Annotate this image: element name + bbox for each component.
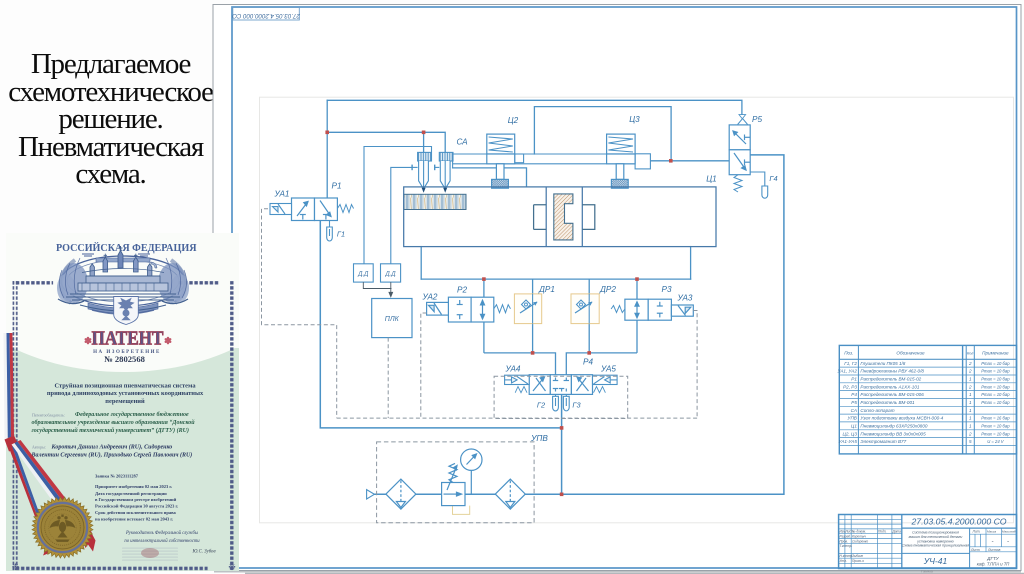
svg-text:1: 1 — [969, 408, 972, 413]
svg-text:Разраб.: Разраб. — [840, 535, 852, 539]
svg-text:❉: ❉ — [12, 562, 20, 572]
svg-text:Р5: Р5 — [851, 400, 857, 405]
svg-text:№ докум.: № докум. — [852, 530, 866, 534]
svg-text:Валентин Сергеевич (RU), Прихо: Валентин Сергеевич (RU), Приходько Серге… — [31, 452, 193, 459]
svg-text:Р2: Р2 — [457, 286, 467, 295]
wire rail to P5 port — [650, 160, 729, 162]
svg-text:Зыбкин: Зыбкин — [852, 554, 863, 558]
svg-text:Поз.: Поз. — [844, 351, 853, 356]
shield with double eagle — [114, 297, 139, 325]
cylinder rail guideway — [453, 154, 651, 169]
svg-text:государственный технический ун: государственный технический университет”… — [32, 427, 190, 434]
svg-text:Распределитель ВМ-015-006: Распределитель ВМ-015-006 — [860, 392, 924, 397]
brake cylinder Ц3 — [607, 134, 636, 188]
svg-text:Примечание: Примечание — [982, 351, 1009, 356]
svg-text:Гамма: Гамма — [921, 569, 934, 574]
wire P3 branch — [636, 279, 638, 299]
filter separator — [386, 479, 416, 509]
svg-text:2: 2 — [968, 431, 972, 436]
svg-text:образовательное учреждение выс: образовательное учреждение высшего образ… — [32, 419, 196, 426]
svg-text:машин для технической детали: машин для технической детали — [909, 535, 963, 539]
svg-text:Р5: Р5 — [752, 115, 762, 124]
svg-text:Pmax = 10 бар: Pmax = 10 бар — [981, 369, 1010, 374]
node J1 supply/CA branch — [325, 131, 329, 135]
svg-text:Ц3: Ц3 — [629, 115, 640, 124]
pressure gauge — [461, 449, 482, 494]
svg-text:U = 24 V: U = 24 V — [987, 439, 1005, 444]
solenoid УА4 — [505, 375, 530, 384]
valve P4 5/3 with УА4 УА5 — [529, 375, 592, 395]
svg-text:УА4: УА4 — [505, 365, 521, 374]
svg-text:ПАТЕНТ: ПАТЕНТ — [92, 329, 164, 350]
svg-text:УА5: УА5 — [600, 365, 616, 374]
svg-text:УА2: УА2 — [422, 293, 438, 302]
svg-text:Г3: Г3 — [572, 401, 581, 410]
svg-text:Ц2: Ц2 — [508, 116, 519, 125]
svg-text:Пневдроклапаны РВУ 462-0/8: Пневдроклапаны РВУ 462-0/8 — [860, 369, 924, 374]
emblem kremlin panorama with laurel wreath — [57, 256, 189, 314]
svg-text:УПВ: УПВ — [530, 434, 548, 443]
wire nozzle 1 drop — [423, 132, 425, 152]
piston of Ц1 — [554, 194, 573, 240]
gold medal — [32, 497, 93, 558]
signal wires ДД to ПЛК — [363, 282, 392, 297]
brake cylinder Ц2 — [487, 134, 515, 188]
svg-text:Г4: Г4 — [769, 174, 777, 183]
svg-text:Руководитель Федеральной служб: Руководитель Федеральной службы — [125, 530, 198, 536]
svg-text:Дата государственной регистрац: Дата государственной регистрации — [95, 491, 167, 496]
svg-text:УА1-УА5: УА1-УА5 — [839, 439, 858, 444]
svg-text:Струйная позиционная пневматич: Струйная позиционная пневматическая сист… — [54, 383, 196, 390]
spring of P3 — [611, 306, 625, 313]
silencer Г4 — [750, 172, 768, 198]
air preparation unit УПВ dashed enclosure — [377, 442, 534, 523]
svg-text:1: 1 — [969, 377, 972, 382]
svg-text:Дата: Дата — [892, 530, 902, 534]
spring of P2 — [494, 305, 511, 313]
svg-text:СА: СА — [456, 138, 468, 147]
svg-text:Заявка № 2023111287: Заявка № 2023111287 — [95, 473, 139, 478]
svg-text:Кол: Кол — [967, 352, 974, 356]
svg-text:Ц1: Ц1 — [851, 424, 857, 429]
silencer Г1 — [327, 221, 333, 242]
svg-text:27.03.05.4.2000.000 СО: 27.03.05.4.2000.000 СО — [910, 517, 1006, 527]
svg-text:Федеральное государственное бю: Федеральное государственное бюджетное — [75, 411, 189, 418]
node J4 P2 branch tap — [482, 277, 486, 281]
svg-text:Глушители ПК05 1/8: Глушители ПК05 1/8 — [860, 361, 905, 366]
svg-text:Пневмоцилиндр 63ХР250х0800: Пневмоцилиндр 63ХР250х0800 — [860, 424, 928, 429]
pressure sensor ДД2 — [381, 264, 401, 282]
svg-text:1: 1 — [969, 400, 972, 405]
svg-text:Ц1: Ц1 — [706, 175, 717, 184]
wire P4 center supply down to air-prep line — [561, 394, 563, 494]
svg-text:Российской Федерации 30 август: Российской Федерации 30 августа 2023 г. — [95, 504, 178, 509]
wire right bus to P4 port B — [566, 353, 637, 375]
svg-text:Р2, Р3: Р2, Р3 — [843, 384, 857, 389]
svg-text:Ю.С. Зубов: Ю.С. Зубов — [191, 550, 215, 555]
throttle with check valve ДР1 — [514, 294, 541, 324]
wire under-table right drop — [690, 247, 692, 280]
svg-text:по интеллектуальной собственно: по интеллектуальной собственности — [124, 538, 200, 544]
svg-text:Р4: Р4 — [851, 392, 857, 397]
solenoid УА1 — [270, 204, 292, 215]
svg-text:Лит.: Лит. — [972, 530, 981, 534]
wire under-table left drop — [420, 247, 422, 280]
svg-text:Система позиционирования: Система позиционирования — [912, 531, 959, 535]
svg-text:Сидоренко: Сидоренко — [852, 539, 868, 543]
title block — [839, 515, 1017, 569]
svg-text:ДР2: ДР2 — [599, 285, 616, 294]
pressure sensor ДД1 — [354, 264, 374, 282]
svg-text:Авторы:: Авторы: — [32, 446, 46, 450]
svg-text:на изобретение истекает 02 мая: на изобретение истекает 02 мая 2043 г. — [95, 516, 173, 521]
svg-text:Распределитель А1ХХ-101: Распределитель А1ХХ-101 — [860, 384, 919, 389]
svg-text:Листов: Листов — [987, 548, 1001, 552]
parts list table — [839, 345, 1016, 454]
wire ДР2 branch — [588, 279, 590, 294]
wire table air feed — [453, 168, 527, 187]
СА sensing lines to ДД sensors — [364, 147, 432, 264]
svg-text:Ц2, Ц3: Ц2, Ц3 — [843, 431, 858, 436]
main cylinder Ц1 table — [404, 187, 716, 247]
silencer Г2 — [553, 394, 559, 411]
svg-text:ПЛК: ПЛК — [385, 316, 400, 323]
svg-text:Коротыч Даниил Андреевич (RU),: Коротыч Даниил Андреевич (RU), Сидоренко — [51, 443, 173, 450]
svg-text:Пневмоцилиндр ВВ 3х0х0х005: Пневмоцилиндр ВВ 3х0х0х005 — [860, 431, 926, 436]
svg-text:2: 2 — [968, 384, 972, 389]
wire valve-row top line — [421, 278, 690, 280]
svg-text:каф. Т.ППА и ТП: каф. Т.ППА и ТП — [977, 562, 1011, 567]
svg-text:27.03.05.4.2000.000 СО: 27.03.05.4.2000.000 СО — [232, 12, 301, 19]
top-left stamp box with rotated doc number — [232, 8, 301, 21]
svg-text:Pmax = 10 бар: Pmax = 10 бар — [981, 431, 1010, 436]
svg-text:Срок действия исключительного: Срок действия исключительного права — [95, 510, 177, 515]
svg-text:УА3: УА3 — [677, 294, 693, 303]
svg-text:Г1: Г1 — [337, 230, 345, 239]
svg-text:Т.контр.: Т.контр. — [840, 544, 853, 548]
svg-text:5: 5 — [969, 439, 972, 444]
svg-text:2: 2 — [968, 369, 972, 374]
spring under УА5 — [594, 387, 606, 393]
svg-text:Р1: Р1 — [851, 377, 857, 382]
svg-text:Схема пневматическая принципиа: Схема пневматическая принципиальная — [902, 544, 969, 548]
svg-text:РОССИЙСКАЯ ФЕДЕРАЦИЯ: РОССИЙСКАЯ ФЕДЕРАЦИЯ — [56, 242, 197, 254]
drawing sheet outer grey edge — [213, 5, 1021, 571]
svg-text:№ 2802568: № 2802568 — [104, 354, 146, 364]
node J2 nozzle1 tap — [422, 131, 426, 135]
svg-text:Pmax = 16 бар: Pmax = 16 бар — [981, 416, 1010, 421]
spring of P1 — [337, 205, 353, 213]
certificate squares border — [13, 281, 18, 570]
wire P1 output down-left supply — [320, 221, 561, 428]
valve P5 — [729, 115, 750, 175]
svg-text:привода длинноходовых установо: привода длинноходовых установочных коорд… — [47, 390, 204, 397]
hatched measuring block of СА — [404, 194, 466, 209]
svg-text:Пров.: Пров. — [840, 539, 849, 543]
wire inner top line Ц2-Ц3 — [534, 107, 671, 161]
svg-text:Г1, Г2: Г1, Г2 — [844, 361, 857, 366]
wire left bus to P4 port A — [484, 353, 556, 375]
patent certificate — [0, 144, 305, 572]
svg-text:Распределитель ВМ-001: Распределитель ВМ-001 — [860, 400, 915, 405]
svg-text:Pmax = 10 бар: Pmax = 10 бар — [981, 392, 1010, 397]
node J6 ДР1 bus tap — [531, 351, 535, 355]
node J9 air-prep output tee — [560, 493, 564, 497]
node J8 P1 supply tee — [560, 426, 564, 430]
svg-text:Узел подготовки воздуха МСВН-0: Узел подготовки воздуха МСВН-000-4 — [860, 416, 943, 421]
node J5 P3 branch tap — [635, 277, 639, 281]
wire branch to CA nozzles — [327, 132, 445, 152]
wire P2 branch — [484, 279, 637, 375]
throttle with check valve ДР2 — [571, 294, 599, 324]
svg-text:Масса: Масса — [987, 530, 996, 534]
svg-text:Р3: Р3 — [661, 285, 671, 294]
sheet inner blue frame — [232, 7, 1017, 568]
award ribbon — [4, 333, 96, 556]
svg-text:✽: ✽ — [164, 336, 172, 347]
valve P3 with solenoid УА3 — [625, 299, 693, 320]
svg-text:Сопло-аппарат: Сопло-аппарат — [860, 408, 894, 413]
nozzle unit СА funnel 1 — [412, 152, 431, 192]
svg-text:УПВ: УПВ — [848, 416, 857, 421]
pasted schematic image faint border — [260, 97, 1014, 523]
svg-text:Коротыч: Коротыч — [852, 535, 866, 539]
svg-text:1: 1 — [969, 424, 972, 429]
pressure regulator — [442, 463, 470, 514]
svg-text:Электромагнит В77: Электромагнит В77 — [860, 439, 906, 444]
svg-text:УЧ-41: УЧ-41 — [923, 556, 948, 566]
svg-text:ДР1: ДР1 — [538, 285, 555, 294]
lubricator — [495, 479, 525, 509]
svg-text:УА1, УА2: УА1, УА2 — [838, 369, 858, 374]
solenoid УА5 — [593, 375, 618, 384]
wire air-prep output line to P5 riser — [374, 155, 784, 494]
svg-text:Pmax = 10 бар: Pmax = 10 бар — [981, 400, 1010, 405]
svg-text:1: 1 — [969, 416, 972, 421]
svg-text:Pmax = 10 бар: Pmax = 10 бар — [981, 377, 1010, 382]
valve P1 with solenoid УА1 — [292, 198, 338, 221]
svg-text:Pmax = 10 бар: Pmax = 10 бар — [981, 361, 1010, 366]
svg-text:2: 2 — [968, 361, 972, 366]
wire main supply vertical from top line to P1 — [326, 100, 328, 198]
spring under УА4 — [515, 387, 527, 393]
svg-text:Распределитель ВМ-015-02: Распределитель ВМ-015-02 — [860, 377, 921, 382]
node J3 rail/P5 line — [669, 159, 673, 163]
svg-text:-: - — [992, 539, 994, 545]
svg-text:установка намеренно: установка намеренно — [916, 539, 954, 543]
svg-text:Обозначение: Обозначение — [896, 351, 925, 356]
spring of P5 — [734, 175, 742, 192]
svg-text:СА: СА — [851, 408, 857, 413]
svg-text:Масштаб: Масштаб — [1002, 530, 1016, 534]
svg-text:Приоритет изобретения 02 мая 2: Приоритет изобретения 02 мая 2023 г. — [95, 484, 172, 489]
svg-text:Г2: Г2 — [537, 401, 545, 410]
svg-text:Pmax = 10 бар: Pmax = 10 бар — [981, 384, 1010, 389]
svg-text:Утв.: Утв. — [840, 559, 847, 563]
svg-text:❉: ❉ — [228, 562, 236, 572]
svg-text:перемещений: перемещений — [105, 398, 145, 405]
wire top supply line — [327, 100, 742, 115]
wire ДР1 branch — [532, 279, 534, 294]
air inlet arrow — [367, 490, 375, 499]
svg-text:Р1: Р1 — [331, 182, 341, 191]
svg-text:Прихо-о: Прихо-о — [852, 559, 864, 563]
controller ПЛК — [372, 299, 412, 338]
svg-text:Д.Д: Д.Д — [384, 272, 396, 278]
svg-text:Д.Д: Д.Д — [357, 272, 369, 278]
electrical dashed wiring from ПЛК — [262, 209, 698, 419]
svg-text:Pmax = 10 бар: Pmax = 10 бар — [981, 424, 1010, 429]
svg-text:1: 1 — [969, 392, 972, 397]
svg-text:-: - — [1007, 539, 1009, 545]
node J7 ДР2 bus tap — [587, 351, 591, 355]
svg-text:ДГТУ: ДГТУ — [986, 556, 1000, 561]
nozzle unit СА funnel 2 — [435, 152, 453, 192]
silencer Г3 — [563, 394, 569, 410]
svg-text:Р4: Р4 — [583, 358, 593, 367]
svg-text:Лист: Лист — [970, 548, 980, 552]
svg-text:Патентообладатель:: Патентообладатель: — [32, 413, 65, 417]
valve P2 with solenoid УА2 — [427, 297, 494, 322]
svg-text:Подп.: Подп. — [878, 530, 887, 534]
svg-text:в Государственном реестре изоб: в Государственном реестре изобретений — [95, 497, 177, 502]
svg-text:УА1: УА1 — [274, 190, 290, 199]
